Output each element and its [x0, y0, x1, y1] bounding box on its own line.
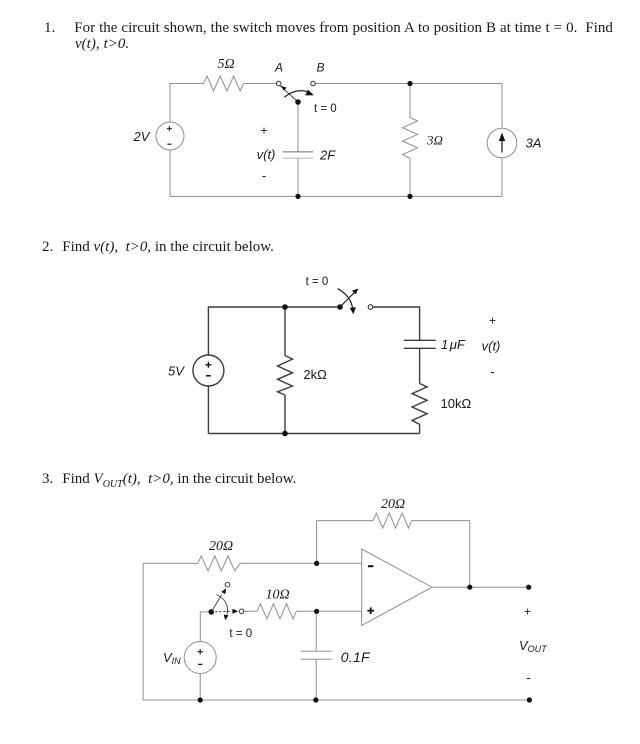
- wire: circuit3 left vertical: [142, 563, 144, 700]
- capacitor C 2F bottom plate: [283, 157, 313, 159]
- switch SW3 right throw open circle: [239, 609, 244, 614]
- svg-text:2kΩ: 2kΩ: [303, 367, 327, 382]
- svg-text:10Ω: 10Ω: [265, 588, 289, 603]
- wire: left top to resistor 20ohm input: [143, 562, 198, 564]
- capacitor C 2F top plate: [283, 151, 313, 153]
- resistor R 3ohm vertical: [403, 118, 418, 159]
- node: plus-input capacitor junction: [314, 609, 319, 614]
- voltage source V2 5V circle: [193, 355, 224, 386]
- resistor R 20ohm feedback: [373, 513, 412, 528]
- wire: VIN top connection to switch pole: [200, 612, 211, 642]
- node: VIN bottom junction: [198, 697, 203, 702]
- current source I1 arrow: [501, 138, 503, 153]
- switch SW2 throw terminal open circle: [368, 305, 373, 310]
- svg-text:0.1F: 0.1F: [341, 649, 371, 665]
- wire: feedback right vertical to output: [469, 521, 471, 588]
- svg-text:10kΩ: 10kΩ: [441, 396, 472, 411]
- svg-text:1μF: 1μF: [441, 337, 466, 352]
- resistor R 10ohm: [244, 604, 296, 619]
- node: output terminal dot: [526, 585, 531, 590]
- op-amp U1 minus input label: [368, 565, 373, 567]
- wire: capacitor 0.1F branch upper: [315, 611, 317, 651]
- svg-text:+: +: [260, 124, 267, 138]
- voltage source V1 2V circle: [156, 122, 184, 150]
- wire: circuit3 bottom rail: [143, 699, 529, 701]
- svg-text:-: -: [490, 364, 494, 379]
- wire: switch pole down to capacitor: [297, 104, 299, 152]
- wire: 10ohm to plus node: [296, 610, 316, 612]
- switch SW2 motion arc: [338, 289, 353, 310]
- svg-text:v(t): v(t): [482, 339, 501, 354]
- wire: resistor 10k to bottom rail: [419, 424, 421, 433]
- wire: resistor 3ohm to bottom rail: [409, 158, 411, 196]
- wire: top rail to resistor 3ohm: [409, 84, 411, 118]
- node: minus-input feedback junction: [314, 561, 319, 566]
- svg-text:VOUT: VOUT: [519, 638, 548, 654]
- wire: circuit2 bottom rail: [208, 433, 419, 435]
- wire: feedback top left segment: [317, 520, 374, 522]
- switch SW3 dashed arm to right throw: [211, 610, 231, 613]
- svg-text:-: -: [262, 168, 266, 183]
- wire: feedback top right segment: [412, 520, 470, 522]
- switch SW1 blade A-to-pole: [280, 85, 299, 102]
- resistor R 5ohm: [204, 76, 244, 91]
- wire: top rail to resistor 2k: [284, 307, 286, 356]
- svg-text:t = 0: t = 0: [229, 628, 252, 640]
- problem 1 text: [44, 20, 634, 53]
- current source I1 3A circle: [487, 128, 517, 158]
- switch SW3 motion arc: [216, 595, 227, 615]
- voltage source V2 plus sign: [205, 364, 211, 366]
- wire: circuit1 bottom rail: [170, 195, 502, 197]
- node: output feedback junction: [467, 585, 472, 590]
- capacitor C 1uF bottom plate: [404, 347, 436, 349]
- wire: opamp output: [432, 586, 529, 588]
- resistor R 20ohm input: [198, 556, 240, 571]
- switch SW1 blade arrowhead near A: [281, 86, 287, 91]
- voltage source VIN plus sign: [197, 651, 203, 653]
- svg-text:+: +: [524, 605, 531, 619]
- wire: circuit2 top rail from source to switch pole: [208, 307, 340, 355]
- switch SW3 blade to upper throw: [211, 595, 222, 612]
- wire: capacitor to bottom rail: [315, 659, 317, 700]
- switch SW3 upper throw open circle: [225, 582, 230, 587]
- switch SW2 blade with arrowhead: [340, 293, 354, 307]
- node: circuit2 bottom junction at 2k: [282, 431, 288, 437]
- switch SW1 pole junction dot: [295, 99, 301, 105]
- wire: capacitor to resistor 10k: [419, 348, 421, 383]
- wire: from terminal B to right corner: [315, 83, 502, 85]
- switch SW2 pole dot: [337, 304, 343, 310]
- switch SW3 pole dot: [209, 609, 215, 615]
- svg-text:5Ω: 5Ω: [217, 57, 234, 72]
- voltage source V1 plus sign: [167, 128, 172, 130]
- svg-text:B: B: [316, 61, 324, 75]
- voltage source VIN circle: [184, 642, 216, 674]
- svg-text:5V: 5V: [168, 364, 185, 379]
- node: circuit2 top junction at 2k: [282, 304, 288, 310]
- wire: resistor to switch terminal A: [244, 83, 277, 85]
- wire: feedback left vertical: [316, 521, 318, 564]
- node: top junction at 3ohm branch: [407, 81, 412, 86]
- wire: resistor to opamp minus input: [240, 562, 362, 564]
- capacitor C 1uF top plate: [404, 339, 436, 341]
- resistor R 2k vertical: [278, 356, 293, 396]
- op-amp U1 triangle: [362, 549, 432, 625]
- wire: VIN bottom to bottom rail: [199, 674, 201, 701]
- svg-text:2F: 2F: [319, 148, 336, 163]
- op-amp U1 plus input label: [367, 610, 374, 612]
- problem 2 text: [42, 239, 274, 256]
- wire: current source to bottom: [501, 158, 503, 197]
- svg-text:t = 0: t = 0: [306, 276, 329, 288]
- problem 3 text: [42, 471, 296, 494]
- svg-text:-: -: [526, 670, 530, 685]
- terminal A open circle: [276, 81, 281, 86]
- wire: source bottom to bottom rail: [207, 386, 209, 434]
- wire: plus input: [317, 610, 362, 612]
- wire: source bottom to bottom rail: [169, 150, 171, 196]
- voltage source V1 minus sign: [167, 143, 171, 145]
- svg-text:3Ω: 3Ω: [426, 133, 443, 148]
- node: bottom junction at 3ohm branch: [407, 194, 412, 199]
- wire: capacitor to bottom rail: [297, 158, 299, 196]
- capacitor C 0.1F top plate: [301, 650, 332, 652]
- wire: right branch down to current source: [501, 84, 503, 129]
- svg-text:20Ω: 20Ω: [209, 539, 233, 554]
- wire: circuit1 top-left from source to resistor: [170, 84, 204, 123]
- svg-text:+: +: [489, 314, 496, 328]
- svg-text:v(t): v(t): [257, 147, 276, 162]
- wire: switch throw to right corner and down to capacitor: [373, 307, 420, 340]
- resistor R 10k vertical: [412, 384, 427, 425]
- svg-text:3A: 3A: [526, 136, 542, 151]
- node: bottom junction at capacitor: [295, 194, 300, 199]
- svg-text:A: A: [274, 61, 283, 75]
- svg-text:2V: 2V: [133, 129, 151, 144]
- svg-text:VIN: VIN: [163, 650, 181, 666]
- svg-text:t = 0: t = 0: [314, 103, 337, 115]
- capacitor C 0.1F bottom plate: [301, 658, 332, 660]
- terminal B open circle: [311, 81, 316, 86]
- svg-text:20Ω: 20Ω: [381, 497, 405, 512]
- node: bottom-right terminal dot: [527, 697, 532, 702]
- node: capacitor bottom junction: [313, 697, 318, 702]
- switch SW1 motion arc arrow A to B: [284, 91, 309, 98]
- wire: resistor 2k to bottom rail: [284, 395, 286, 434]
